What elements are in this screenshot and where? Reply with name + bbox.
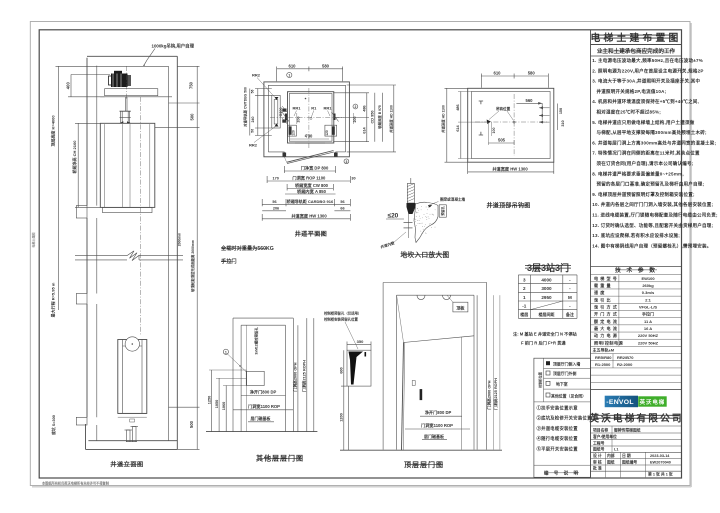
plan: dim HW 1300 xyxy=(262,218,350,220)
svg-text:1050: 1050 xyxy=(215,400,219,408)
hookplan: right arrows xyxy=(539,107,550,109)
svg-text:门洞高2000 OPH: 门洞高2000 OPH xyxy=(486,380,491,409)
plan: dim CARDBG 916 + 56/56 xyxy=(262,203,350,205)
svg-text:10. 井道内各层之间厅门门洞入墙安装,其他各层安装位置;: 10. 井道内各层之间厅门门洞入墙安装,其他各层安装位置; xyxy=(592,201,713,208)
svg-text:56: 56 xyxy=(251,90,255,94)
plan: car door sill xyxy=(295,142,325,144)
plan: circled 1 marker xyxy=(287,72,292,77)
svg-text:EW2070040: EW2070040 xyxy=(650,460,671,464)
elevation: pit access opening xyxy=(76,417,87,425)
svg-text:2023-03-14: 2023-03-14 xyxy=(650,454,670,458)
svg-text:图纸编号: 图纸编号 xyxy=(622,459,637,464)
svg-text:控制柜安装预留孔位置: 控制柜安装预留孔位置 xyxy=(324,317,359,322)
svg-text:RR1: RR1 xyxy=(323,106,332,111)
sheet edge shadow xyxy=(690,23,692,487)
door1: call box xyxy=(246,371,264,385)
plan: circled 3 xyxy=(344,159,349,164)
door2: door handle xyxy=(420,389,423,400)
svg-text:1: 1 xyxy=(523,295,526,300)
plan: dim 206 / 66 xyxy=(262,210,286,212)
svg-text:310: 310 xyxy=(561,120,565,126)
svg-text:R2:2000: R2:2000 xyxy=(617,362,633,367)
elevation: dim 400 left xyxy=(70,75,72,97)
svg-text:井道深度 HD 1100: 井道深度 HD 1100 xyxy=(389,105,394,133)
svg-text:井道宽度 HW 1300: 井道宽度 HW 1300 xyxy=(492,166,528,173)
door2: door leaf ajar xyxy=(404,336,475,343)
svg-text:220V 50HZ: 220V 50HZ xyxy=(638,340,659,345)
svg-text:井道宽度 HW 1300: 井道宽度 HW 1300 xyxy=(291,213,327,220)
svg-text:2:1: 2:1 xyxy=(645,297,652,302)
svg-text:底坑 S=300: 底坑 S=300 xyxy=(51,415,56,436)
svg-text:曳 引 方 式: 曳 引 方 式 xyxy=(594,304,618,310)
door2: lock box xyxy=(412,381,415,386)
hookplan: centerlines xyxy=(513,94,515,156)
plan: car guide rail left xyxy=(285,114,287,121)
svg-text:66: 66 xyxy=(340,207,344,211)
svg-text:16 A: 16 A xyxy=(644,326,652,331)
svg-text:500: 500 xyxy=(190,113,195,121)
svg-text:净开门800 DP: 净开门800 DP xyxy=(250,389,277,396)
svg-text:12. 订货时确认选型、功能等,且配套开关由货梯用户自理;: 12. 订货时确认选型、功能等,且配套开关由货梯用户自理; xyxy=(592,222,713,229)
plan: small rope dots xyxy=(305,98,307,100)
svg-text:轿顶轮距顶层完成面距离 2000mm: 轿顶轮距顶层完成面距离 2000mm xyxy=(190,240,195,292)
door1: outer frame xyxy=(233,317,293,319)
plan: dim 200 inside xyxy=(296,113,298,124)
plan: centerlines xyxy=(308,88,310,148)
svg-text:1: 1 xyxy=(288,74,290,78)
plan: front wall door opening jambs xyxy=(283,152,285,157)
svg-text:CD 950: CD 950 xyxy=(371,111,375,124)
svg-text:M: M xyxy=(568,295,572,300)
svg-text:客户/使用单位: 客户/使用单位 xyxy=(592,434,617,439)
plan: car wall outer xyxy=(288,92,334,143)
svg-text:260kg: 260kg xyxy=(642,283,654,288)
svg-text:56: 56 xyxy=(251,129,255,133)
ctrlbox: wall line below xyxy=(348,386,350,450)
legend rotated side label xyxy=(543,358,545,402)
svg-text:控制柜预留孔（仅适用）: 控制柜预留孔（仅适用） xyxy=(324,311,361,316)
hookplan: dim HW 1300 bottom xyxy=(468,171,554,173)
svg-text:R1: R1 xyxy=(311,106,317,111)
hookplan: dim 505 xyxy=(488,142,514,144)
svg-text:电 梯 型 号: 电 梯 型 号 xyxy=(594,275,617,281)
svg-text:本图纸所有权归英沃电梯所有未经许可不得复制: 本图纸所有权归英沃电梯所有未经许可不得复制 xyxy=(41,480,110,485)
plan: door vane brackets bottom corners xyxy=(288,125,297,136)
elevation: shaft top inner xyxy=(97,65,169,67)
svg-text:2. 照明电源为220V,用户在首层设主电源开关,规格2P: 2. 照明电源为220V,用户在首层设主电源开关,规格2P xyxy=(592,67,703,74)
svg-text:614: 614 xyxy=(363,126,367,133)
svg-text:RR2/B70: RR2/B70 xyxy=(617,355,634,360)
hookplan: dim 560 xyxy=(516,102,542,104)
svg-text:486: 486 xyxy=(456,104,460,110)
plan: left dim chain 56/240/56 xyxy=(257,89,259,136)
elevation: cwt rope hitch below xyxy=(130,419,135,422)
svg-text:顶层高度 K=4000: 顶层高度 K=4000 xyxy=(49,115,55,147)
elevation: buffers in pit xyxy=(127,430,131,442)
svg-text:与梯配,从层平地支撑梁每隔300mm高处预埋土木砖;: 与梯配,从层平地支撑梁每隔300mm高处预埋土木砖; xyxy=(597,129,708,136)
elevation: dim CH 2100 car height xyxy=(77,123,79,207)
plan: right dim 200 xyxy=(352,113,354,124)
svg-text:第 1 张 共 1 张: 第 1 张 共 1 张 xyxy=(648,472,673,477)
svg-text:全载时对重量为560KG: 全载时对重量为560KG xyxy=(220,244,274,252)
svg-text:井道深度 HD 1100: 井道深度 HD 1100 xyxy=(440,105,445,133)
svg-text:英沃电梯: 英沃电梯 xyxy=(640,398,666,406)
svg-text:⑤平层开关安装位置: ⑤平层开关安装位置 xyxy=(537,446,579,453)
svg-text:净开门800 DP: 净开门800 DP xyxy=(425,409,452,416)
sill: anchor bolt xyxy=(407,184,414,204)
elevation: car rope hitch H-frame xyxy=(120,110,131,112)
elevation: car sling uprights xyxy=(122,124,124,207)
svg-text:速 度: 速 度 xyxy=(594,289,605,295)
door2: outer frame xyxy=(383,282,487,284)
elevation: top landing door opening xyxy=(76,206,87,218)
svg-text:对重导轨距 CWTDBG 500: 对重导轨距 CWTDBG 500 xyxy=(243,87,248,127)
svg-text:门洞高2125 ROPH: 门洞高2125 ROPH xyxy=(302,360,307,392)
subtitle line xyxy=(591,55,682,57)
svg-text:F 前门 R 后门 F+R 贯通: F 前门 R 后门 F+R 贯通 xyxy=(521,340,566,347)
svg-text:最大行程 R=5.95 m: 最大行程 R=5.95 m xyxy=(49,282,55,317)
svg-text:2950: 2950 xyxy=(541,295,552,300)
svg-text:地坎入口放大图: 地坎入口放大图 xyxy=(401,250,450,259)
plan: right circled 2 xyxy=(353,104,358,109)
svg-text:轿厢深度 B 975: 轿厢深度 B 975 xyxy=(377,105,382,129)
sill: anchor tick lines xyxy=(404,222,413,224)
svg-text:3层3站3门: 3层3站3门 xyxy=(527,262,569,273)
elevation: dim 500 right xyxy=(155,126,200,128)
elevation: hook leader line xyxy=(144,49,155,66)
svg-text:手拉门: 手拉门 xyxy=(221,257,237,265)
legend block border xyxy=(534,358,591,477)
svg-text:手拉门: 手拉门 xyxy=(642,311,654,317)
svg-text:6. 井道每层门洞上方离300mm高处与井道同宽的混凝土梁;: 6. 井道每层门洞上方离300mm高处与井道同宽的混凝土梁; xyxy=(592,139,716,146)
ctrlbox: box xyxy=(347,350,371,386)
svg-text:电梯土建图: 电梯土建图 xyxy=(31,232,36,247)
svg-text:注: M 基站 E 井道安全门 N 不停站: 注: M 基站 E 井道安全门 N 不停站 xyxy=(513,330,578,337)
svg-text:门洞宽1100 ROP: 门洞宽1100 ROP xyxy=(248,403,280,410)
elevation: shaft left outer wall xyxy=(86,58,88,206)
plan: top dim line 610/580 xyxy=(277,68,343,70)
elevation: break lines with zigzag xyxy=(75,255,127,257)
svg-text:图纸号: 图纸号 xyxy=(593,447,605,452)
elevation: car cab xyxy=(100,123,155,207)
svg-text:11. 进线电缆装置,厅门锁随电梯配套及随行电缆由公司负责;: 11. 进线电缆装置,厅门锁随电梯配套及随行电缆由公司负责; xyxy=(592,212,718,219)
svg-text:2: 2 xyxy=(523,286,526,291)
sheet inner border xyxy=(39,30,681,478)
svg-text:3: 3 xyxy=(345,160,347,164)
hookplan: dim HD 1100 xyxy=(446,88,448,162)
svg-text:动 力 电 源: 动 力 电 源 xyxy=(594,332,618,338)
sill: concrete stipple xyxy=(420,208,423,211)
svg-text:600: 600 xyxy=(339,367,343,373)
elevation: mid landing door opening xyxy=(76,294,87,305)
svg-text:5. 电梯井道应只用做电梯墙上结构,用户土建须做: 5. 电梯井道应只用做电梯墙上结构,用户土建须做 xyxy=(592,119,695,126)
elevation: dim 750 right xyxy=(177,65,199,67)
svg-text:120: 120 xyxy=(325,130,329,136)
door2: right dim verticals xyxy=(476,295,478,449)
ctrlbox: ground line xyxy=(340,449,502,451)
svg-text:VFGL-L/S: VFGL-L/S xyxy=(639,305,658,310)
svg-text:门净宽 DP 800: 门净宽 DP 800 xyxy=(301,165,329,172)
door1: circled 1 with leader xyxy=(223,349,228,354)
svg-text:4. 机房和井道环境温度须保持在+5℃到+40℃之间,: 4. 机房和井道环境温度须保持在+5℃到+40℃之间, xyxy=(592,98,699,105)
plan: door jamb brackets xyxy=(283,153,287,157)
svg-text:设 计: 设 计 xyxy=(593,453,602,458)
svg-text:门洞宽1100 ROP: 门洞宽1100 ROP xyxy=(421,422,453,429)
svg-text:3: 3 xyxy=(523,278,526,283)
svg-text:顶层厅门外侧: 顶层厅门外侧 xyxy=(553,371,576,376)
title block rows xyxy=(591,425,682,427)
svg-text:须在订货合同(用户自理),请示本公司确认编号;: 须在订货合同(用户自理),请示本公司确认编号; xyxy=(597,160,694,167)
svg-text:控制柜位置: 控制柜位置 xyxy=(537,371,542,388)
svg-text:曳 引 比: 曳 引 比 xyxy=(594,296,611,302)
svg-text:R1:2500: R1:2500 xyxy=(595,362,611,367)
svg-text:614: 614 xyxy=(456,124,460,131)
tech table grid xyxy=(591,274,682,276)
svg-text:相对湿度在25℃时不超过85%;: 相对湿度在25℃时不超过85%; xyxy=(597,109,662,116)
door1: right dim OPH verticals xyxy=(297,325,299,431)
svg-text:项目名称: 项目名称 xyxy=(593,427,608,432)
hookplan: dim 100 xyxy=(491,122,493,136)
plan: dim DP 800 xyxy=(284,170,335,172)
svg-text:内部: 内部 xyxy=(607,453,615,458)
plan: dim A 850 xyxy=(285,193,336,195)
right column separator xyxy=(590,30,592,479)
hookplan: right dims 150/310 xyxy=(557,104,559,131)
elevation: shaft right outer wall xyxy=(176,56,178,449)
hookplan: left dim line 486/614 xyxy=(460,92,462,159)
svg-text:L1: L1 xyxy=(614,448,618,452)
legend row3 xyxy=(546,381,550,385)
plan: dim 730 inside xyxy=(290,138,329,140)
elevation: traction machine motor xyxy=(111,74,128,88)
svg-text:圈梁或混凝土墙: 圈梁或混凝土墙 xyxy=(440,197,466,202)
svg-text:4000: 4000 xyxy=(541,278,552,283)
svg-text:3xM12螺栓预留孔: 3xM12螺栓预留孔 xyxy=(253,327,258,355)
svg-text:580: 580 xyxy=(322,63,330,68)
svg-text:505: 505 xyxy=(498,138,506,143)
elevation: shaft top outer xyxy=(87,55,177,57)
svg-text:④随行电缆安装位置: ④随行电缆安装位置 xyxy=(537,435,579,442)
plan: car guide rail right xyxy=(333,114,335,121)
svg-text:工程号: 工程号 xyxy=(593,440,605,445)
svg-text:1060: 1060 xyxy=(222,402,226,410)
elevation: counterweight frame xyxy=(118,340,147,414)
svg-text:图纸: 图纸 xyxy=(607,459,615,464)
plan: dim CD 950 xyxy=(374,93,376,142)
plan: dim CW 800 xyxy=(287,188,333,190)
svg-text:门洞高2000 OPH: 门洞高2000 OPH xyxy=(293,362,298,391)
door2: hinge diagonal xyxy=(397,295,404,342)
svg-text:轿厢内宽 A 850: 轿厢内宽 A 850 xyxy=(297,188,327,195)
svg-text:170: 170 xyxy=(273,177,279,181)
svg-text:150: 150 xyxy=(559,108,563,114)
door2: inner frame xyxy=(397,294,474,296)
svg-text:120: 120 xyxy=(292,130,296,136)
svg-text:1000kg吊钩,用户自理: 1000kg吊钩,用户自理 xyxy=(152,43,195,50)
svg-text:层门磁基板: 层门磁基板 xyxy=(250,415,272,421)
elevation: suspension ropes xyxy=(125,97,127,111)
door2: ceiling label box xyxy=(453,302,468,312)
svg-text:500: 500 xyxy=(189,420,194,428)
plan: CWTDBG 500 dim xyxy=(249,89,251,136)
elevation: shaft right inner wall xyxy=(168,66,170,440)
svg-text:RR2: RR2 xyxy=(252,73,261,78)
elevation: machine beam xyxy=(105,89,158,96)
svg-text:门洞高2125 ROPH: 门洞高2125 ROPH xyxy=(493,378,498,410)
svg-text:8. 电梯井道严格要求垂直偏差量0~+25mm,: 8. 电梯井道严格要求垂直偏差量0~+25mm, xyxy=(592,170,684,177)
svg-text:楼层间距: 楼层间距 xyxy=(539,311,555,317)
legend footer row xyxy=(534,464,591,466)
plan: dim HD 1100 xyxy=(393,85,395,152)
plan: cwt guide rail brackets xyxy=(282,109,286,112)
legend row1 filled xyxy=(546,361,550,365)
svg-text:其他位置（见合同）: 其他位置（见合同） xyxy=(550,393,586,398)
plan: counterweight plan left xyxy=(272,95,280,128)
svg-text:御牌传菜梯图纸: 御牌传菜梯图纸 xyxy=(613,427,641,432)
door1: floor line xyxy=(206,431,317,433)
elevation: counterweight sheave xyxy=(125,337,139,351)
svg-text:3. 电流大于等于30A,井道照明开关及插座开关,其中: 3. 电流大于等于30A,井道照明开关及插座开关,其中 xyxy=(592,78,700,85)
svg-text:顶层厅门侧入墙: 顶层厅门侧入墙 xyxy=(553,361,580,366)
svg-text:审 核: 审 核 xyxy=(593,459,602,464)
svg-text:750: 750 xyxy=(189,81,194,89)
svg-text:③井道电缆安装位置: ③井道电缆安装位置 xyxy=(537,425,579,432)
door2: top hooks xyxy=(417,295,425,300)
ctrlbox: dim 1200 xyxy=(343,386,345,450)
ctrlbox: black flag xyxy=(349,352,364,385)
svg-text:①扶手安装位置示意: ①扶手安装位置示意 xyxy=(537,404,579,411)
svg-text:顶板: 顶板 xyxy=(456,304,465,311)
svg-text:载 重 量: 载 重 量 xyxy=(594,282,611,288)
door1: left dim chain xyxy=(211,370,213,432)
logo separator line xyxy=(591,388,682,390)
svg-text:-1: -1 xyxy=(522,304,527,309)
svg-text:1200: 1200 xyxy=(339,413,343,421)
plan: dim ROP 1100 + 170 + 30 xyxy=(267,180,350,182)
title block col dividers xyxy=(605,452,607,477)
floor table grid xyxy=(518,274,577,276)
svg-text:1: 1 xyxy=(225,350,227,354)
svg-text:7. 特殊情况门洞在同侧的距离在11米时,其余点位置: 7. 特殊情况门洞在同侧的距离在11米时,其余点位置 xyxy=(592,150,700,157)
ctrlbox: dim 600 xyxy=(343,350,345,386)
elevation: cwt rope line xyxy=(140,97,142,336)
svg-text:吊钩位置: 吊钩位置 xyxy=(496,106,511,111)
svg-text:RR5/R80: RR5/R80 xyxy=(595,355,612,360)
sill: concrete outline xyxy=(414,202,438,242)
svg-text:0.3m/s: 0.3m/s xyxy=(642,290,655,295)
main title box xyxy=(591,44,682,46)
svg-text:486: 486 xyxy=(363,105,367,111)
elevation: dim K=4000 headroom xyxy=(58,66,60,310)
logo green box xyxy=(638,396,667,406)
svg-text:地下室: 地下室 xyxy=(556,381,568,386)
svg-text:日 期: 日 期 xyxy=(622,453,631,458)
plan: dim B 975 xyxy=(381,93,383,142)
svg-text:预留的各层门口基准,确定预留孔及梯杆由用户自理;: 预留的各层门口基准,确定预留孔及梯杆由用户自理; xyxy=(597,181,705,188)
svg-text:350: 350 xyxy=(357,339,364,344)
plan: swing door leaf open xyxy=(287,151,334,163)
svg-text:56: 56 xyxy=(340,200,344,204)
plan: shaft inner wall xyxy=(268,84,345,86)
svg-text:预留孔: 预留孔 xyxy=(440,205,445,215)
svg-text:206: 206 xyxy=(273,207,279,211)
hookplan: rail section marks xyxy=(479,101,483,104)
legend row2 xyxy=(546,371,550,375)
svg-text:井道照明开关规格2P,电流值10A;: 井道照明开关规格2P,电流值10A; xyxy=(597,88,667,95)
hookplan: hook points xyxy=(487,120,491,125)
svg-text:14. 图中有梯阴线用户自理（预留螺栓孔）,需预埋安装。: 14. 图中有梯阴线用户自理（预留螺栓孔）,需预埋安装。 xyxy=(592,242,711,249)
svg-text:580: 580 xyxy=(528,71,536,76)
svg-text:240: 240 xyxy=(251,117,255,123)
svg-text:220V 50HZ: 220V 50HZ xyxy=(638,333,659,338)
svg-text:100: 100 xyxy=(492,128,496,134)
svg-text:1250: 1250 xyxy=(207,396,211,404)
svg-text:照明/控制电源: 照明/控制电源 xyxy=(594,339,624,345)
sill: anchor hatch xyxy=(407,184,414,187)
svg-text:730: 730 xyxy=(305,133,313,138)
svg-text:轿厢净高 CH 2100: 轿厢净高 CH 2100 xyxy=(71,140,77,174)
elevation: pit floor xyxy=(88,440,177,442)
svg-text:610: 610 xyxy=(494,71,502,76)
svg-text:2000mm: 2000mm xyxy=(177,233,181,247)
svg-text:9. 电梯顶层井道预留照明灯罩及控制箱安装位置;: 9. 电梯顶层井道预留照明灯罩及控制箱安装位置; xyxy=(592,191,695,198)
svg-text:楼层: 楼层 xyxy=(520,311,528,317)
plan: right dim chain 486/614 xyxy=(366,93,368,142)
svg-text:560: 560 xyxy=(526,98,534,103)
elevation: car floor xyxy=(103,207,153,212)
plan: car wall inner xyxy=(289,94,332,142)
tech table outer xyxy=(591,266,682,268)
svg-text:30: 30 xyxy=(351,177,355,181)
svg-text:11 A: 11 A xyxy=(644,319,652,324)
svg-text:EW100: EW100 xyxy=(641,276,655,281)
svg-text:轿厢导轨距 CARDBG 916: 轿厢导轨距 CARDBG 916 xyxy=(287,198,334,204)
svg-text:额 定 电 流: 额 定 电 流 xyxy=(594,318,618,324)
svg-text:1. 主电源电压波动最大,频率50Hz,且在电压波动±7%: 1. 主电源电压波动最大,频率50Hz,且在电压波动±7% xyxy=(592,57,703,64)
door1: inner frame xyxy=(241,324,285,326)
sill: reserved-hole box right xyxy=(439,205,446,217)
elevation: shaft left inner wall xyxy=(96,66,98,206)
svg-text:主五导轨±M: 主五导轨±M xyxy=(593,347,615,353)
svg-text:≤20: ≤20 xyxy=(388,213,399,220)
svg-text:层门磁基板: 层门磁基板 xyxy=(423,433,445,439)
hookplan: outer wall xyxy=(468,88,554,162)
svg-text:②底坑及检修开关安装位置: ②底坑及检修开关安装位置 xyxy=(537,415,593,422)
svg-text:56: 56 xyxy=(272,200,276,204)
svg-text:最 大 电 流: 最 大 电 流 xyxy=(594,325,618,331)
hookplan: inner wall xyxy=(472,92,551,159)
svg-text:3000: 3000 xyxy=(541,286,552,291)
elevation: dim 500 pit right xyxy=(169,406,200,408)
svg-text:开 门 方 式: 开 门 方 式 xyxy=(594,311,618,317)
svg-text:备注: 备注 xyxy=(565,311,574,317)
elevation: counterweight guide shoes xyxy=(118,412,147,414)
svg-text:13. 底坑应设爬梯,若有积水应设排水设施;: 13. 底坑应设爬梯,若有积水应设排水设施; xyxy=(592,232,680,239)
elevation: center line car xyxy=(125,66,127,100)
plan: shaft outer wall xyxy=(264,82,350,157)
legend checkbox rows xyxy=(544,367,591,369)
svg-text:2: 2 xyxy=(354,105,356,109)
svg-text:400: 400 xyxy=(66,82,71,90)
svg-text:-ENVOL: -ENVOL xyxy=(606,399,633,406)
ctrlbox: dim 350 xyxy=(347,343,371,345)
legend row4 xyxy=(546,393,550,397)
hookplan: top dim 610/580 xyxy=(481,75,548,77)
svg-text:RR2: RR2 xyxy=(249,143,258,148)
sill: sill body black xyxy=(407,203,416,214)
svg-text:门洞宽 ROP 1100: 门洞宽 ROP 1100 xyxy=(292,175,326,182)
floor table diagonal in -1 row xyxy=(530,301,563,310)
